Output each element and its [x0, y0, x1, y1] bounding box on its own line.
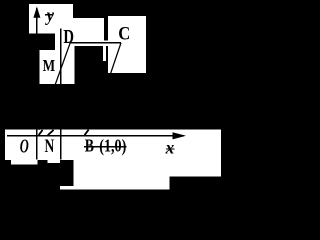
x-axis arrowhead	[173, 132, 187, 139]
y-axis	[36, 8, 37, 160]
tick mark: line OD crossing the x-axis	[39, 130, 43, 135]
svg-text:C: C	[118, 24, 130, 45]
x-axis	[7, 135, 184, 137]
white background patches	[5, 4, 221, 190]
line BC (slant below C)	[100, 43, 121, 106]
tick mark: line BC crossing the x-axis	[85, 130, 89, 136]
vertical line ND	[60, 29, 61, 160]
y-axis arrowhead	[33, 7, 40, 18]
black tab over bottom patch	[60, 163, 74, 186]
small bar through y label (scan artifact)	[45, 14, 53, 15]
line OD (slant through M)	[39, 43, 70, 130]
tick mark on axis between N and O	[48, 130, 54, 135]
svg-text:M: M	[43, 56, 56, 75]
segment DC	[70, 42, 122, 43]
svg-text:(1,0): (1,0)	[99, 136, 126, 156]
svg-text:B: B	[85, 136, 94, 156]
small bar through x label (scan artifact)	[166, 149, 174, 150]
svg-text:x: x	[165, 137, 175, 157]
svg-text:O: O	[20, 136, 29, 158]
strikethrough on B label	[84, 146, 127, 147]
svg-text:D: D	[63, 26, 74, 48]
svg-text:N: N	[45, 136, 55, 157]
